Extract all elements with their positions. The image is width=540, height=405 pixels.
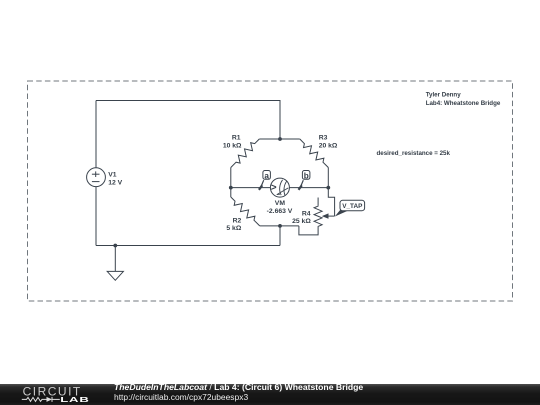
voltage source V1 bbox=[87, 168, 106, 187]
label R3 value 20 kOhm bbox=[319, 142, 338, 149]
node bridge left junction bbox=[229, 186, 233, 190]
wire middle rail left bbox=[231, 187, 271, 189]
R4 wiper arrow bbox=[322, 213, 335, 218]
footer line 2 bbox=[114, 393, 248, 401]
label R3 name bbox=[319, 134, 328, 141]
svg-text:desired_resistance = 25k: desired_resistance = 25k bbox=[377, 150, 451, 157]
svg-text:b: b bbox=[304, 171, 309, 180]
wire R1 to left node bbox=[230, 168, 232, 188]
footer bar bbox=[0, 384, 540, 405]
annotation desired_resistance bbox=[377, 150, 451, 157]
voltmeter VM bbox=[270, 178, 289, 197]
wire R2 stub from left node bbox=[230, 188, 232, 197]
label VM value -2.663 V bbox=[267, 208, 293, 215]
node ground junction bbox=[113, 244, 117, 248]
wire right node to V_TAP wiper bbox=[328, 188, 334, 217]
node bridge right junction bbox=[326, 186, 330, 190]
svg-text:5 kΩ: 5 kΩ bbox=[226, 225, 241, 232]
label R1 value 10 kOhm bbox=[223, 142, 242, 149]
node bridge bottom junction bbox=[278, 224, 282, 228]
net flag V_TAP bbox=[335, 200, 365, 216]
terminal b bbox=[299, 171, 310, 190]
wire top rail from V1 to bridge top bbox=[96, 101, 280, 140]
wire to R4 bottom (U shape) bbox=[299, 226, 318, 235]
svg-text:-2.663 V: -2.663 V bbox=[267, 208, 293, 215]
wire bottom node to bottom rail bbox=[279, 226, 281, 246]
svg-text:V_TAP: V_TAP bbox=[342, 203, 363, 210]
svg-text:VM: VM bbox=[275, 200, 286, 207]
annotation title bbox=[426, 100, 501, 107]
CircuitLab logo bbox=[21, 384, 99, 405]
svg-text:V1: V1 bbox=[108, 172, 117, 179]
wire bottom rail bbox=[96, 245, 280, 247]
svg-text:25 kΩ: 25 kΩ bbox=[292, 218, 311, 225]
label V1 value 12 V bbox=[108, 179, 122, 186]
label R2 value 5 kOhm bbox=[226, 225, 241, 232]
schematic dashed border bbox=[28, 81, 513, 301]
resistor R1 bbox=[231, 139, 259, 168]
wire V1 top lead bbox=[95, 101, 97, 168]
wire bridge top horizontal bbox=[259, 138, 300, 140]
svg-text:R1: R1 bbox=[232, 134, 241, 141]
ground bbox=[107, 271, 123, 280]
label V1 name bbox=[108, 172, 117, 179]
wire R3 to right node bbox=[327, 168, 329, 188]
label R1 name bbox=[232, 134, 241, 141]
svg-text:R2: R2 bbox=[233, 218, 242, 225]
svg-text:10 kΩ: 10 kΩ bbox=[223, 142, 242, 149]
footer line 1 bbox=[114, 383, 363, 392]
label VM name bbox=[275, 200, 286, 207]
svg-text:Tyler Denny: Tyler Denny bbox=[426, 91, 462, 98]
svg-text:R3: R3 bbox=[319, 134, 328, 141]
svg-text:>: > bbox=[271, 183, 277, 194]
svg-text:Lab4: Wheatstone Bridge: Lab4: Wheatstone Bridge bbox=[426, 100, 501, 107]
label R2 name bbox=[233, 218, 242, 225]
svg-text:12 V: 12 V bbox=[108, 179, 122, 186]
svg-text:20 kΩ: 20 kΩ bbox=[319, 142, 338, 149]
annotation author name bbox=[426, 91, 462, 98]
wire ground stem bbox=[114, 246, 116, 272]
svg-text:R4: R4 bbox=[302, 210, 311, 217]
label R4 value 25 kOhm bbox=[292, 218, 311, 225]
wire V1 bottom lead bbox=[95, 187, 97, 246]
node bridge top junction bbox=[278, 137, 282, 141]
wire middle rail right bbox=[289, 187, 328, 189]
label R4 name bbox=[302, 210, 311, 217]
resistor R4 potentiometer bbox=[314, 198, 322, 227]
resistor R3 bbox=[300, 139, 329, 168]
svg-text:LAB: LAB bbox=[60, 396, 89, 405]
wire bridge bottom horizontal bbox=[260, 225, 299, 227]
svg-text:a: a bbox=[264, 171, 269, 180]
terminal a bbox=[259, 171, 271, 190]
resistor R2 bbox=[231, 197, 260, 226]
